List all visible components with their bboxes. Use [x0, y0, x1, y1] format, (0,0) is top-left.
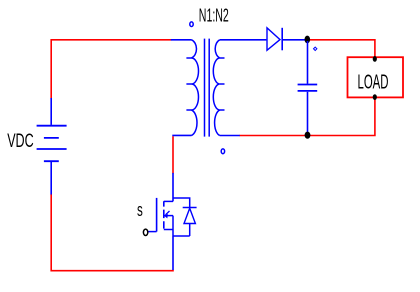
- svg-text:VDC: VDC: [7, 131, 34, 152]
- transformer T1 core lines: [205, 39, 210, 137]
- svg-text:s: s: [137, 200, 143, 220]
- svg-text:N1:N2: N1:N2: [199, 5, 229, 25]
- transformer T1 primary winding: [192, 40, 199, 136]
- capacitor C1 top lead: [307, 41, 309, 84]
- wire red top right junction to load: [307, 40, 375, 59]
- transistor Q1 drain connect: [164, 200, 173, 202]
- transistor Q1 body diode anode lead: [189, 224, 191, 237]
- transistor Q1 bottom segment connect: [164, 229, 173, 231]
- transistor Q1 body arrow: [166, 211, 170, 215]
- transistor Q1 gate terminal circle: [143, 229, 147, 235]
- node marker diamond: [314, 47, 317, 50]
- diode D1 triangle: [267, 28, 280, 51]
- transformer primary phasing dot: [190, 22, 193, 27]
- transistor Q1 body diode branch top: [173, 198, 190, 208]
- node LOAD top dot: [373, 56, 377, 62]
- diode D1 cathode lead: [282, 39, 307, 41]
- transistor Q1 body diode triangle: [184, 208, 195, 223]
- transformer T1 secondary bottom lead: [220, 135, 240, 137]
- transistor Q1 gate bar: [156, 198, 158, 232]
- wire red secondary bottom rail to load: [239, 97, 375, 135]
- transistor Q1 source pin: [172, 236, 174, 270]
- wire battery bottom red down and across bottom rail: [51, 194, 174, 271]
- transformer T1 secondary winding: [213, 40, 219, 136]
- transformer T1 primary bottom lead: [172, 134, 191, 136]
- diode D1 cathode bar: [281, 28, 283, 51]
- node junction dot bottom right: [305, 132, 311, 139]
- battery VDC lead top: [50, 98, 52, 125]
- transistor Q1 source middle tap: [164, 215, 173, 217]
- transistor Q1 source vertical: [172, 216, 174, 236]
- node junction dot top right: [305, 36, 311, 44]
- transformer T1 secondary winding ticks: [220, 58, 225, 110]
- transformer T1 secondary top lead: [220, 39, 267, 41]
- transistor Q1 body diode bar: [183, 207, 197, 209]
- transformer T1 primary winding ticks: [186, 58, 191, 110]
- LOAD box: [348, 57, 404, 97]
- battery VDC plates: [37, 126, 67, 162]
- capacitor C1 plates: [298, 85, 318, 91]
- transformer T1 primary top lead: [171, 39, 192, 41]
- wire red from transformer primary bottom to mosfet drain: [172, 136, 174, 173]
- transistor Q1 gate lead: [148, 231, 156, 233]
- capacitor C1 bottom lead: [307, 92, 309, 134]
- node LOAD bottom dot: [373, 94, 377, 100]
- transistor Q1 source bottom bar: [173, 235, 190, 237]
- svg-text:LOAD: LOAD: [358, 71, 389, 94]
- transformer secondary phasing dot: [221, 149, 224, 154]
- wire top rail red from battery to transformer primary top: [51, 40, 171, 99]
- battery VDC lead bottom: [50, 161, 52, 194]
- transistor Q1 drain pin: [172, 173, 174, 202]
- transistor Q1 channel segments: [163, 201, 165, 228]
